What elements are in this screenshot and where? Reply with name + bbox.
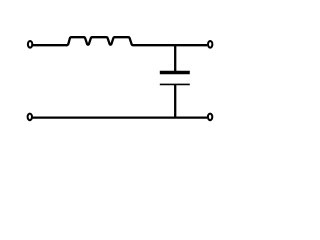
wire (top-left terminal to inductor) — [33, 44, 67, 46]
capacitor C1 top plate — [160, 71, 190, 74]
terminal (top-left input) — [28, 41, 32, 48]
capacitor C1 bottom plate — [160, 83, 190, 85]
terminal (bottom-right) — [208, 114, 212, 121]
wire (bottom rail) — [33, 116, 208, 118]
terminal (bottom-left) — [28, 114, 32, 121]
terminal (top-right output) — [208, 41, 212, 48]
wire (capacitor bottom lead) — [174, 84, 176, 117]
wire (capacitor top lead) — [174, 45, 176, 72]
inductor L1 — [67, 37, 135, 45]
wire (inductor to top-right terminal) — [135, 44, 208, 46]
